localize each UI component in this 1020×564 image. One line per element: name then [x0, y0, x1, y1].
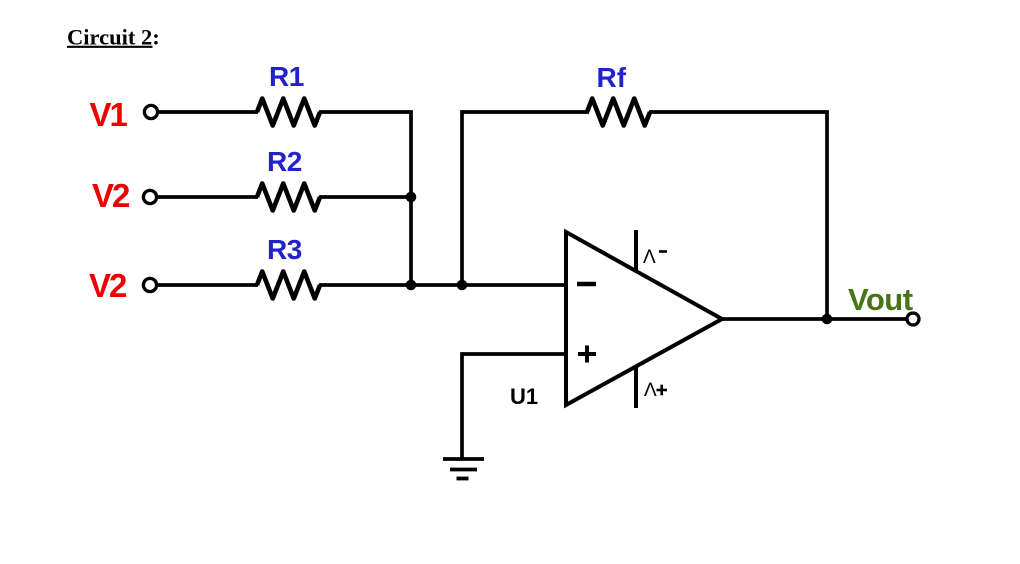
terminal Vout [907, 313, 919, 325]
terminal V2 (row 3) [143, 278, 156, 291]
terminal V1 [144, 105, 157, 118]
heading "Circuit 2:" [67, 25, 160, 50]
junction dot output [822, 314, 833, 325]
wire V2 to R3 [157, 283, 258, 287]
svg-text:R3: R3 [267, 234, 302, 265]
svg-text:Λ: Λ [643, 247, 656, 268]
minus input symbol [577, 282, 596, 287]
V+ power pin [634, 367, 638, 408]
svg-text:Vout: Vout [848, 282, 913, 317]
junction dot R2/bus [406, 192, 417, 203]
resistor R1 [257, 61, 320, 126]
wire V1 to R1 [158, 110, 258, 114]
label V- pin [643, 247, 667, 268]
svg-text:U1: U1 [510, 384, 538, 409]
wire op-amp output [722, 317, 908, 321]
junction dot bus/row3 [406, 280, 417, 291]
ground [443, 459, 484, 479]
wire R1 to bus [319, 112, 411, 285]
resistor R2 [257, 146, 320, 211]
terminal V2 (row 2) [143, 190, 156, 203]
resistor R3 [257, 234, 320, 299]
plus input symbol [578, 352, 596, 356]
svg-text:V2: V2 [89, 267, 127, 304]
wire feedback left vertical [462, 112, 589, 285]
resistor Rf [587, 62, 650, 126]
V- power pin [634, 230, 638, 272]
wire Rf to output node [649, 112, 827, 319]
svg-text:V2: V2 [92, 177, 130, 214]
wire V2 to R2 [157, 195, 258, 199]
wire non-inverting input to ground [462, 354, 566, 459]
label V+ pin [644, 380, 667, 401]
svg-text:V1: V1 [90, 96, 128, 133]
svg-text:Λ: Λ [644, 380, 657, 401]
svg-text:R2: R2 [267, 146, 302, 177]
svg-text:R1: R1 [269, 61, 304, 92]
junction dot feedback tap [457, 280, 468, 291]
wire R2 to bus [319, 195, 411, 199]
svg-text:Rf: Rf [597, 62, 627, 93]
op-amp U1 [510, 230, 722, 409]
wire R3 to op-amp inverting input [319, 283, 566, 287]
